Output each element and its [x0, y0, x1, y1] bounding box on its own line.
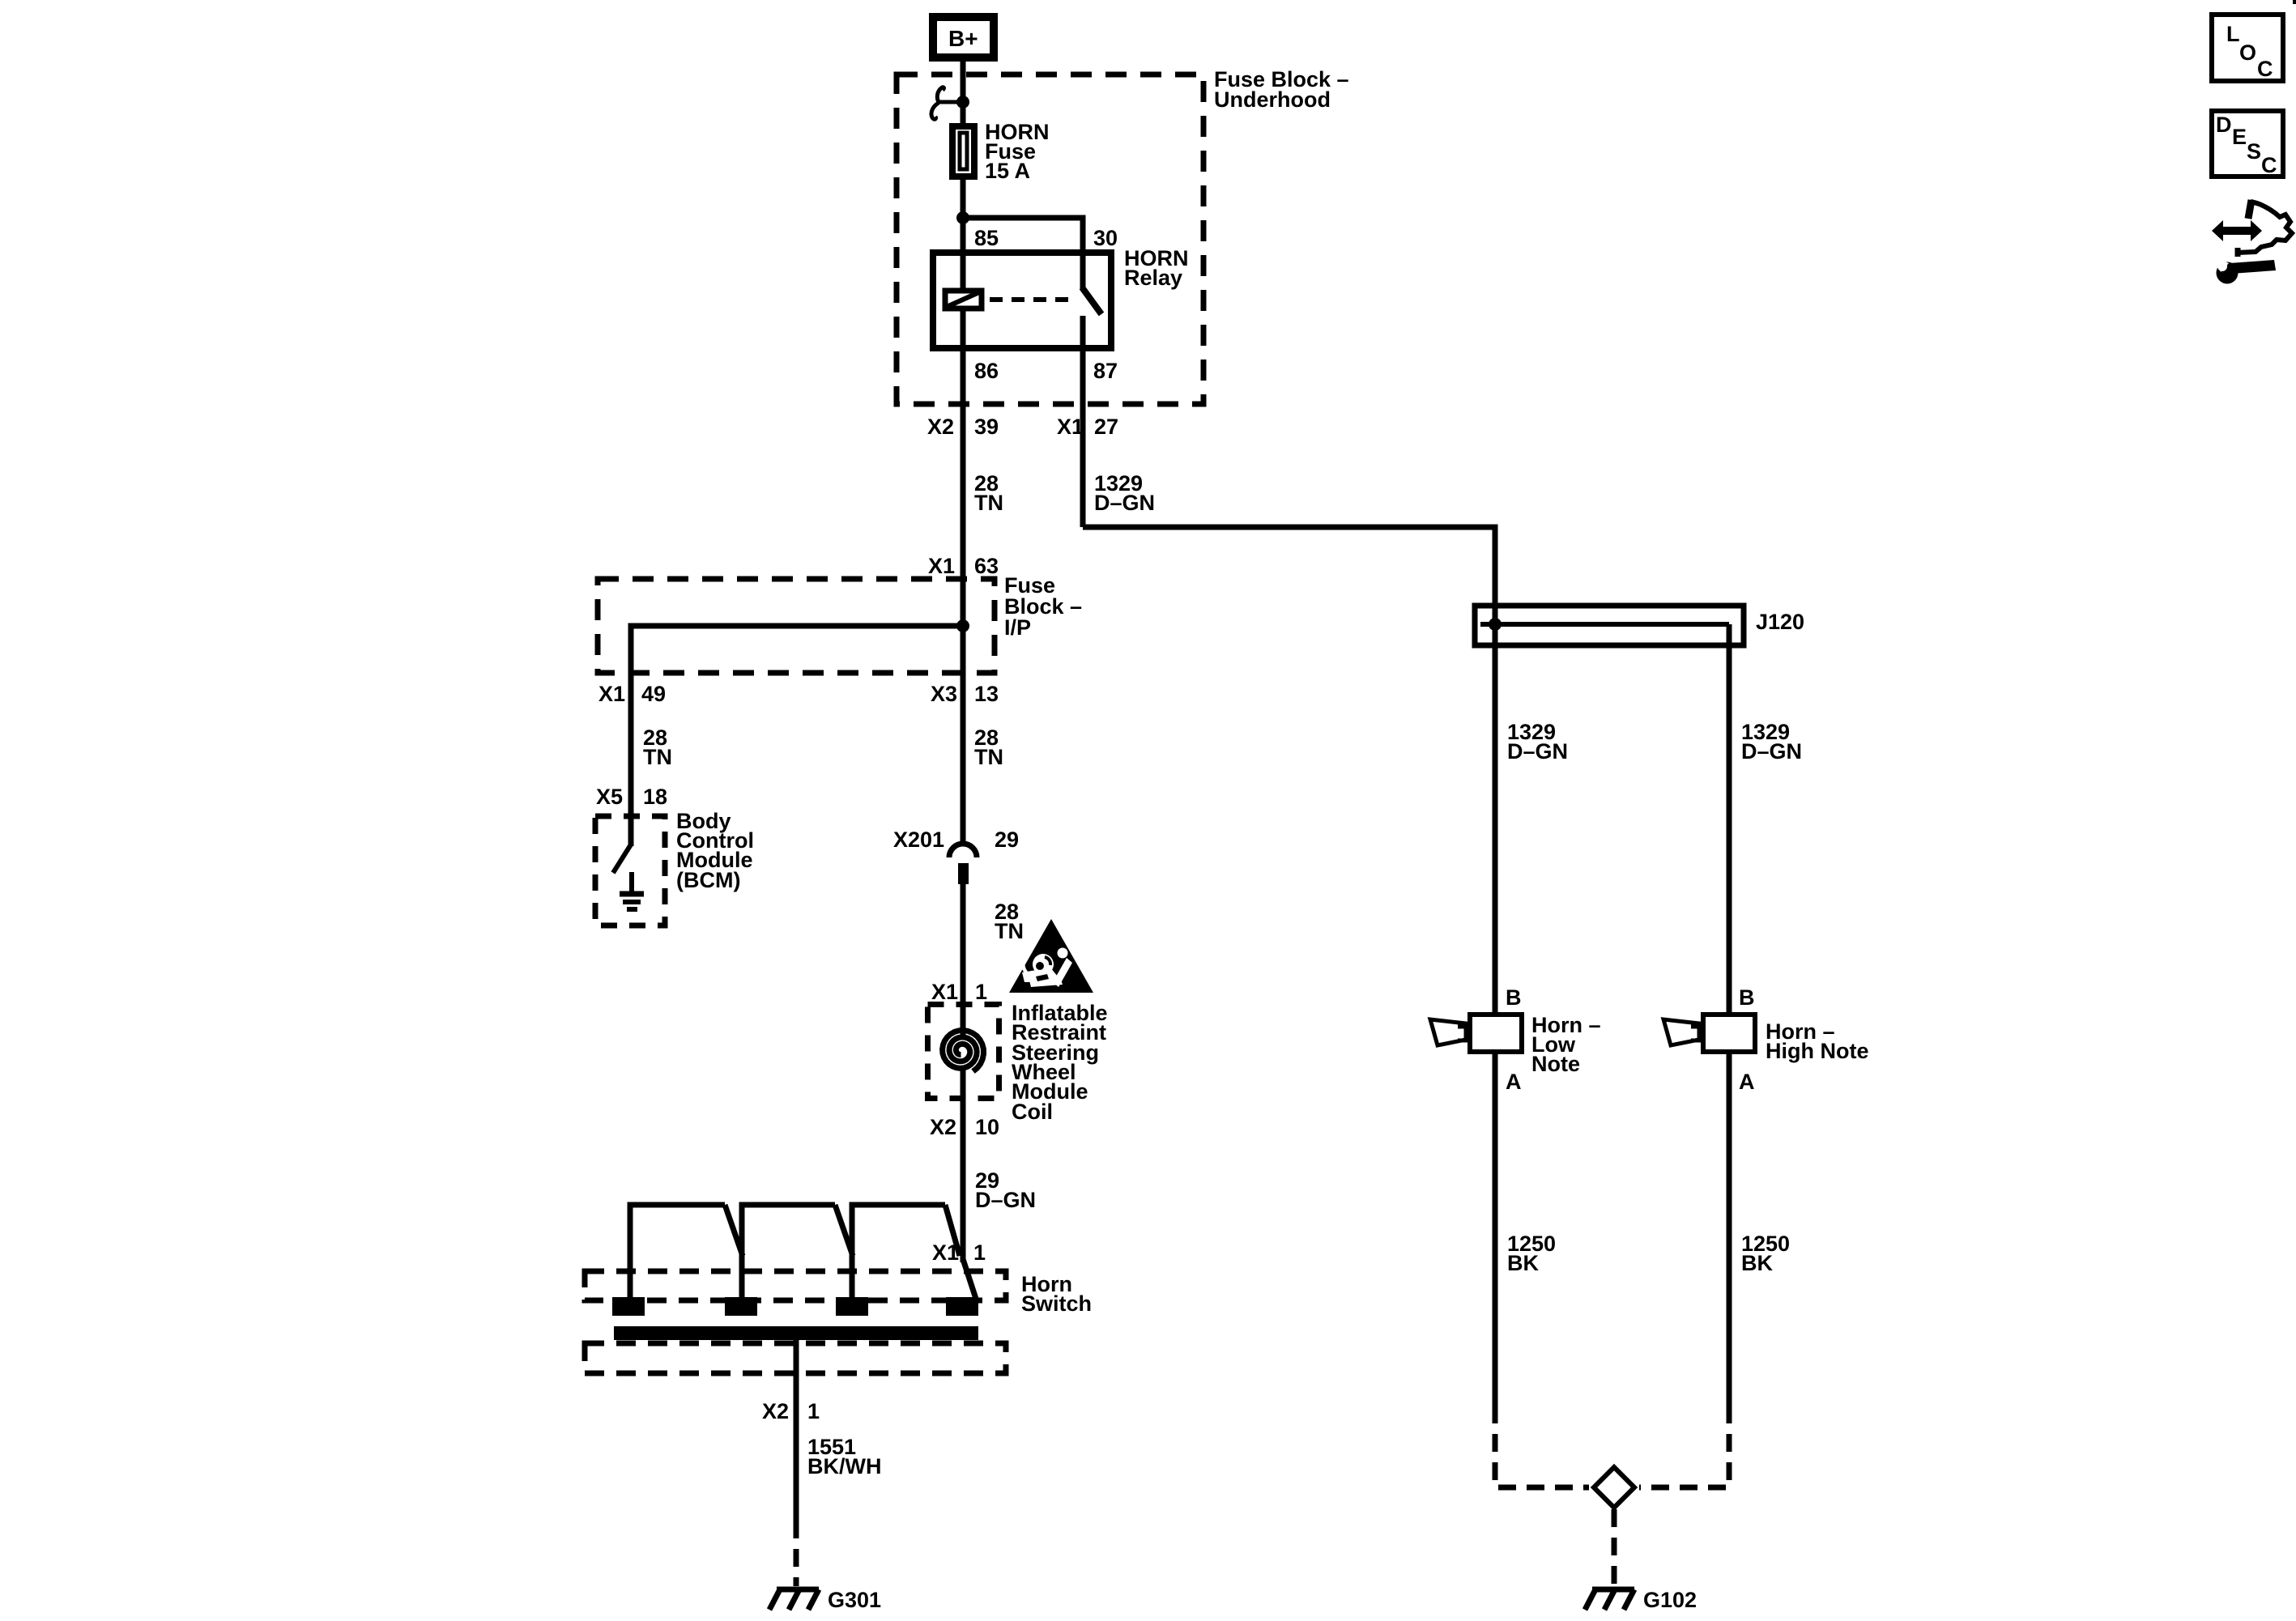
svg-text:B: B [1506, 985, 1522, 1010]
relay linkage dashed [990, 297, 1076, 302]
horn high note symbol [1663, 1015, 1755, 1052]
splice pack J120 box [1475, 606, 1744, 645]
svg-text:29: 29 [995, 828, 1019, 852]
ground G301 [769, 1589, 819, 1610]
svg-text:Relay: Relay [1124, 266, 1182, 290]
relay box HORN Relay [933, 253, 1111, 348]
svg-text:X2: X2 [927, 415, 954, 439]
DESC icon box [2212, 111, 2283, 177]
svg-text:D–GN: D–GN [975, 1188, 1036, 1212]
svg-text:1: 1 [973, 1240, 986, 1265]
wire J120 to left horn [1493, 624, 1498, 1012]
J120 internal bus [1480, 622, 1729, 627]
svg-text:G102: G102 [1643, 1588, 1697, 1612]
svg-text:C: C [2257, 57, 2273, 81]
wire junction to relay pin 30 [963, 218, 1083, 253]
svg-text:E: E [2232, 125, 2247, 149]
svg-text:C: C [2261, 153, 2277, 177]
wire fuse to junction [961, 180, 966, 249]
dashed box horn switch upper [585, 1271, 1006, 1300]
svg-text:D–GN: D–GN [1094, 491, 1155, 515]
svg-text:BK: BK [1507, 1251, 1539, 1275]
dashed box Fuse Block - I/P [598, 579, 995, 673]
wire bar down [794, 1340, 799, 1521]
wire relay 86 down [961, 351, 966, 581]
svg-text:S: S [2247, 139, 2261, 164]
svg-text:1: 1 [975, 980, 987, 1004]
relay pin 30 lead [1080, 249, 1086, 289]
wire relay 87 down [1080, 351, 1086, 527]
svg-text:18: 18 [643, 785, 667, 809]
svg-text:High Note: High Note [1766, 1039, 1869, 1063]
dashed wire splice to G102 [1612, 1509, 1617, 1585]
svg-text:X1: X1 [598, 682, 625, 706]
removal-installation icon: wrench [2214, 257, 2276, 284]
dashed box Fuse Block - Underhood [897, 74, 1203, 404]
ground G102 [1585, 1589, 1634, 1610]
wire J120 to right horn [1727, 624, 1732, 1012]
svg-text:I/P: I/P [1004, 615, 1031, 640]
svg-text:X5: X5 [596, 785, 623, 809]
wire B+ to fuse [961, 62, 966, 126]
horn low note symbol [1430, 1015, 1522, 1052]
svg-text:D–GN: D–GN [1741, 739, 1802, 764]
fusible link tap symbol [931, 87, 961, 120]
fuse HORN Fuse 15 A [952, 126, 974, 177]
BCM switch blade [613, 845, 631, 873]
svg-text:87: 87 [1093, 359, 1118, 383]
wire bus inside I/P [631, 626, 963, 673]
svg-text:27: 27 [1094, 415, 1118, 439]
svg-text:D–GN: D–GN [1507, 739, 1568, 764]
inline connector X201 [949, 844, 977, 884]
wire main down to X201 [961, 673, 966, 843]
splice diamond [1594, 1467, 1634, 1508]
svg-text:O: O [2239, 40, 2256, 65]
node: fusible link tap junction [956, 96, 969, 108]
common contact bar [614, 1326, 978, 1340]
svg-text:L: L [2226, 22, 2240, 46]
svg-text:13: 13 [974, 682, 999, 706]
contact pad 3 [836, 1297, 868, 1316]
horn switch cell 1 [630, 1205, 743, 1297]
svg-text:85: 85 [974, 226, 999, 250]
svg-text:30: 30 [1093, 226, 1118, 250]
relay pin 87 lead [1080, 316, 1086, 351]
SECTION: coil [928, 919, 1108, 1262]
horn switch cell 2 [742, 1205, 853, 1297]
svg-text:Switch: Switch [1021, 1291, 1092, 1316]
removal-installation icon: part outline [2237, 200, 2292, 257]
svg-text:63: 63 [974, 554, 999, 578]
svg-text:Underhood: Underhood [1214, 87, 1331, 112]
wire coil to horn switch [961, 1101, 966, 1262]
node: junction in I/P [956, 619, 969, 632]
svg-text:J120: J120 [1756, 610, 1804, 634]
horn switch blade from main wire [963, 1259, 976, 1299]
airbag warning triangle [1009, 919, 1093, 993]
svg-text:BK: BK [1741, 1251, 1773, 1275]
SECTION: top feed [897, 17, 1349, 404]
svg-text:X201: X201 [893, 828, 944, 852]
svg-text:86: 86 [974, 359, 999, 383]
svg-text:A: A [1506, 1070, 1522, 1094]
removal-installation icon: double arrow [2212, 220, 2262, 241]
svg-text:10: 10 [975, 1115, 999, 1139]
svg-text:X1: X1 [1057, 415, 1084, 439]
svg-text:(BCM): (BCM) [676, 868, 740, 892]
SECTION: bcm [595, 785, 1024, 1002]
contact pad 4 [946, 1297, 978, 1316]
relay coil [945, 291, 982, 308]
wire X1-49 down to BCM [628, 673, 634, 846]
SECTION: hornswitch [585, 1205, 1092, 1612]
svg-text:X2: X2 [930, 1115, 956, 1139]
SECTION: right [1083, 527, 1869, 1612]
svg-text:B: B [1739, 985, 1755, 1010]
wire relay 87 to J120 [1083, 527, 1495, 624]
svg-text:A: A [1739, 1070, 1755, 1094]
dashed wire right horn to splice [1639, 1406, 1729, 1487]
relay switch blade [1082, 287, 1101, 314]
dashed box Body Control Module [595, 816, 665, 925]
contact pad 1 [612, 1297, 645, 1316]
wire main through I/P [961, 581, 966, 673]
corner tick mark [2293, 0, 2296, 4]
svg-text:BK/WH: BK/WH [807, 1454, 881, 1478]
wire out of coil [961, 1069, 966, 1101]
coil spiral [943, 1031, 984, 1072]
svg-text:X1: X1 [932, 1240, 959, 1265]
wire right horn down [1727, 1054, 1732, 1406]
svg-text:TN: TN [974, 491, 1003, 515]
svg-text:X1: X1 [928, 554, 955, 578]
wire left horn down [1493, 1054, 1498, 1406]
svg-text:X2: X2 [762, 1399, 789, 1423]
SECTION: relay [927, 226, 1189, 581]
dashed box horn switch lower [585, 1343, 1006, 1373]
svg-text:B+: B+ [948, 26, 978, 51]
svg-text:Coil: Coil [1012, 1100, 1053, 1124]
SECTION: corner icons [2212, 0, 2296, 284]
dashed wire left horn to splice [1495, 1406, 1589, 1487]
SECTION: ip-block [598, 554, 1082, 846]
dashed wire to G301 [794, 1521, 799, 1586]
wire relay coil leg 85-86 [961, 249, 966, 351]
svg-text:15 A: 15 A [985, 159, 1030, 183]
ground symbol inside BCM [620, 872, 644, 909]
wire into coil [961, 1002, 966, 1039]
svg-text:TN: TN [974, 745, 1003, 769]
svg-text:G301: G301 [828, 1588, 881, 1612]
svg-text:Note: Note [1531, 1052, 1580, 1076]
svg-text:X3: X3 [931, 682, 957, 706]
node: junction below fuse [956, 211, 969, 224]
svg-text:39: 39 [974, 415, 999, 439]
svg-text:49: 49 [641, 682, 666, 706]
contact pad 2 [725, 1297, 757, 1316]
svg-text:D: D [2216, 113, 2232, 137]
LOC icon box [2212, 15, 2283, 81]
node: J120 junction [1489, 618, 1502, 631]
wire X201 down [961, 883, 966, 1002]
horn switch cell 3 [852, 1205, 960, 1297]
dashed box steering wheel coil [928, 1005, 999, 1099]
svg-text:1: 1 [807, 1399, 820, 1423]
svg-text:X1: X1 [931, 980, 958, 1004]
power terminal B+ [933, 17, 994, 57]
svg-text:TN: TN [995, 919, 1024, 943]
svg-text:TN: TN [643, 745, 672, 769]
